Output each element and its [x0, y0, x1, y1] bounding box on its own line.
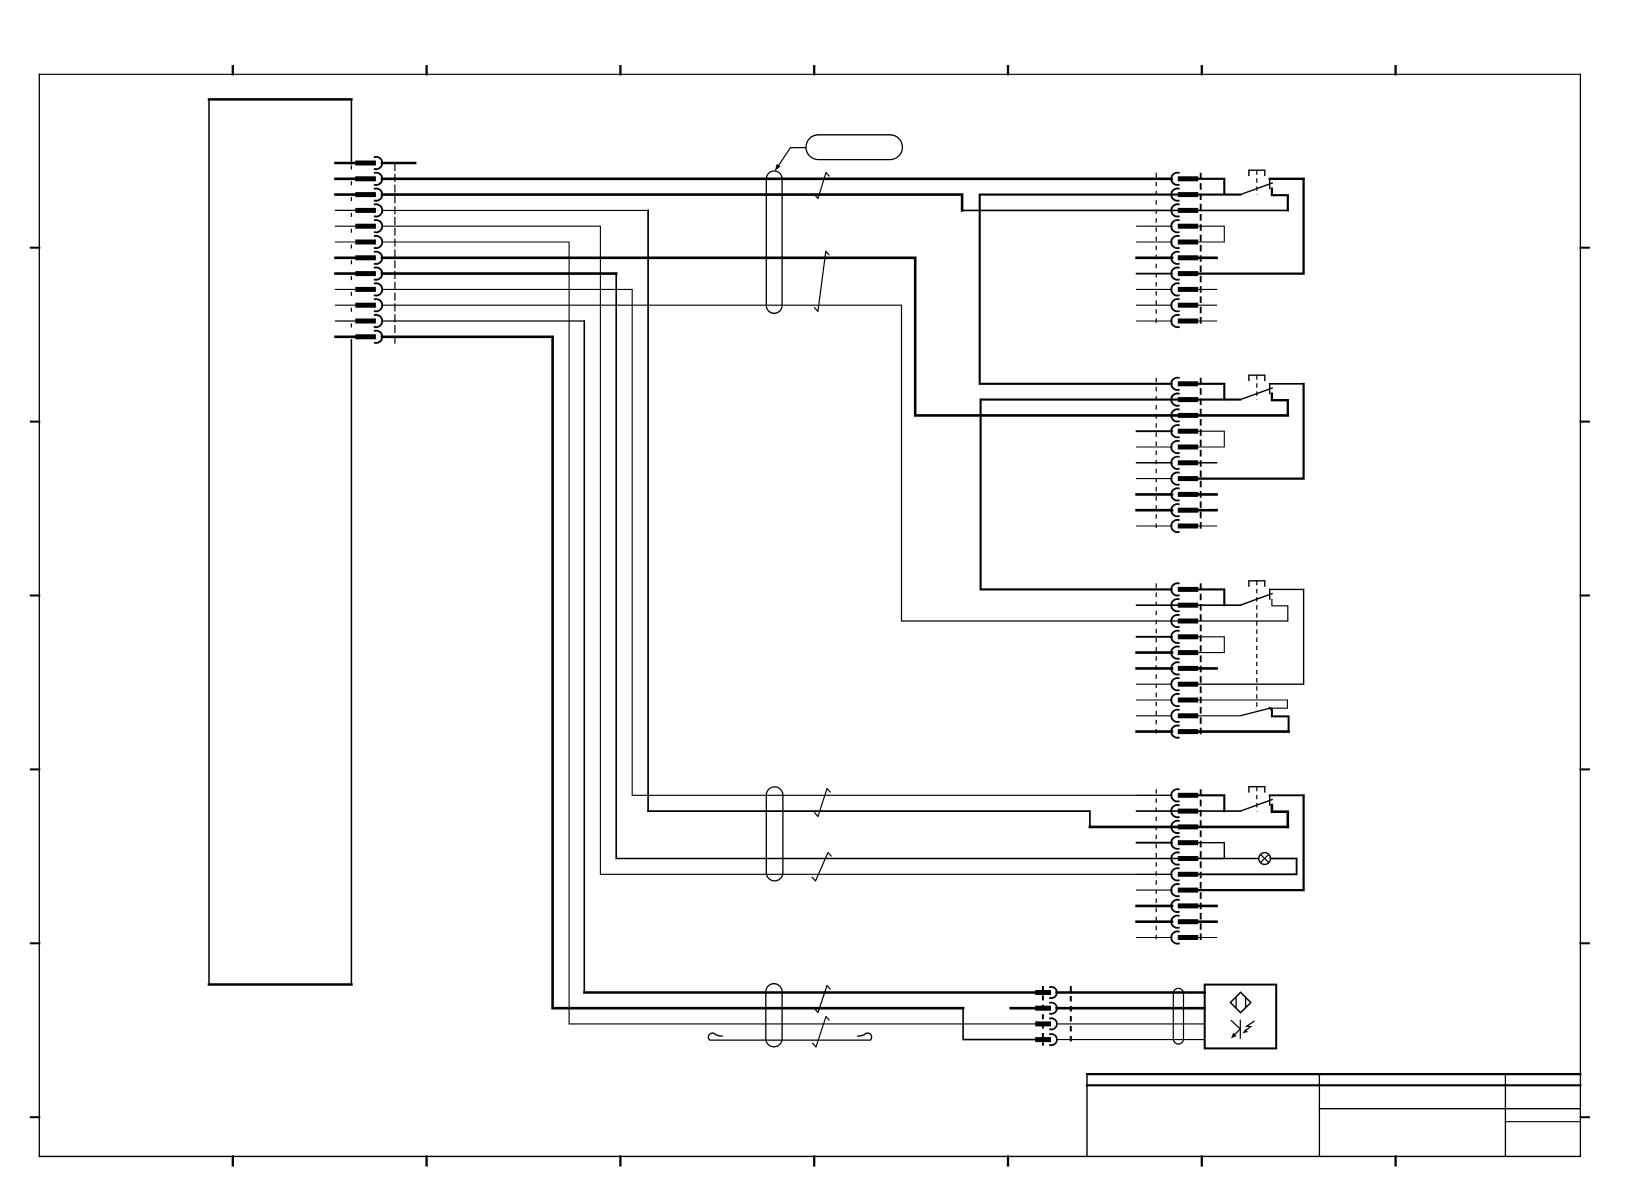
- switch S5 blade: [1240, 799, 1273, 811]
- switch S3 push actuator: [1249, 375, 1265, 380]
- connector X4 pin 10: [1137, 730, 1172, 733]
- jumper X2 pins 1-2: [1198, 179, 1224, 195]
- sensor diamond symbol: [1230, 992, 1250, 1012]
- wire X1-3 to X2-3: [382, 195, 962, 211]
- connector X2 pin 10: [1137, 320, 1172, 322]
- connector X1 pin 8: [336, 272, 356, 275]
- connector X5 pin 6: [1137, 873, 1172, 875]
- breakout mark 1: [815, 173, 830, 199]
- jumper X4 pins 4-5: [1198, 637, 1224, 653]
- connector X5 pin 1: [1137, 794, 1172, 796]
- connector X2 pin 3: [1137, 209, 1172, 211]
- connector X1 pin 12: [336, 335, 356, 338]
- wire stub X6-2: [1011, 1007, 1036, 1010]
- connector X1 pin 4: [336, 209, 356, 211]
- connector X3 pin 3: [1137, 414, 1172, 416]
- wire switch to X2 pin 3: [1272, 189, 1288, 211]
- photoelectric sensor B1: [1205, 985, 1277, 1049]
- jumper X4 pins 1-2: [1198, 589, 1224, 605]
- wire X3-2 chain to X4-1: [981, 400, 1241, 590]
- connector X3 pin 5: [1137, 446, 1172, 448]
- connector X5 pin 2: [1137, 810, 1172, 812]
- tie wrap left: [708, 1033, 723, 1040]
- connector X4 housing (dashed): [1155, 583, 1157, 737]
- connector X1 pin 6: [336, 241, 356, 243]
- wire X1-10 to X4-3: [382, 305, 1288, 621]
- breakout mark 3: [815, 789, 831, 817]
- connector X4 pin 5: [1137, 651, 1172, 654]
- breakout mark 4: [812, 853, 831, 882]
- wire switch to X4 pin 3: [1272, 599, 1288, 621]
- connector X5 housing (dashed): [1155, 789, 1157, 943]
- connector X5 pin 10: [1137, 937, 1172, 939]
- wire X2-2 chain to X3-1: [980, 195, 1241, 384]
- connector X4 pin 4: [1137, 636, 1172, 638]
- loom wrap 2: [766, 787, 783, 881]
- wire X4 pin2 stub: [1137, 604, 1241, 606]
- wire X4 pin 9 to switch S3b: [1198, 715, 1240, 717]
- wire switch to X3 pin 7: [1270, 383, 1304, 385]
- breakout mark 5: [815, 986, 831, 1013]
- connector X4 pin 2: [1137, 604, 1172, 606]
- connector X5 pin 7: [1137, 889, 1172, 891]
- connector X1 pin 2: [336, 178, 356, 181]
- connector X2 pin 9: [1137, 304, 1172, 306]
- loom wrap 3: [766, 984, 782, 1047]
- connector X5 pin 4: [1137, 842, 1172, 844]
- breakout mark 2: [815, 251, 830, 311]
- wire X5 pin2 stub: [1137, 810, 1241, 812]
- connector X3 pin 8: [1137, 493, 1172, 496]
- switch S5 push actuator: [1249, 787, 1265, 792]
- wire X1-12 to X6-4: [382, 337, 963, 1008]
- switch S2 blade: [1240, 183, 1273, 195]
- connector X3 housing (dashed): [1155, 378, 1157, 532]
- switch S3b blade: [1240, 708, 1271, 716]
- jumper X2 pins 4-5: [1198, 226, 1224, 242]
- control unit A1: [209, 98, 351, 101]
- connector X3 pin 6: [1137, 462, 1172, 464]
- connector X1 pin 9: [336, 288, 356, 290]
- connector X1 pin 10: [336, 304, 356, 306]
- jumper X3 pins 1-2: [1198, 384, 1224, 400]
- connector X2 pin 8: [1137, 288, 1172, 290]
- wire switch to X2 pin 7: [1270, 178, 1304, 180]
- connector X2 pin 5: [1137, 241, 1172, 243]
- breakout mark 6: [813, 1017, 830, 1048]
- connector X5 pin 3: [1137, 826, 1172, 828]
- wire switch to X3 pin 3: [1272, 394, 1288, 416]
- jumper X5 pins 1-2: [1198, 795, 1224, 811]
- connector X6 pin 3: [1035, 1021, 1051, 1026]
- connector X6 housing (dashed): [1042, 986, 1044, 1046]
- connector X4 pin 8: [1137, 699, 1172, 701]
- connector X1 pin 11: [336, 320, 356, 322]
- switch S2 push actuator: [1249, 170, 1265, 175]
- connector X2 housing (dashed): [1155, 173, 1157, 327]
- connector X2 pin 4: [1137, 225, 1172, 227]
- tie wrap line: [710, 1039, 870, 1041]
- callout balloon: [806, 135, 902, 160]
- connector X1 pin 1: [336, 162, 356, 165]
- connector X5 pin 8: [1137, 905, 1172, 908]
- connector X3 pin 1: [1137, 383, 1172, 385]
- tie wrap right: [857, 1033, 872, 1040]
- connector X5 pin 9: [1137, 920, 1172, 923]
- wire X4 pin 8 to switch S3b: [1198, 699, 1287, 701]
- loom wrap 1: [766, 171, 782, 313]
- indicator lamp E1: [1259, 853, 1271, 865]
- wire switch to X5 pin 7: [1270, 794, 1304, 796]
- connector X4 pin 3: [1137, 620, 1172, 622]
- connector X3 pin 4: [1137, 430, 1172, 432]
- wire X1-1 stub: [382, 162, 415, 165]
- wire X1-4 to X5-3: [382, 209, 648, 211]
- wire X1-11 to X6-1: [382, 320, 584, 322]
- wire X1-5 to X5-6: [382, 226, 1172, 874]
- connector X2 pin 2: [1137, 194, 1172, 196]
- connector X1 mating face (dashed): [350, 166, 352, 341]
- connector X3 pin 2: [1137, 399, 1172, 401]
- callout leader arrow: [777, 148, 807, 169]
- wire X1-8 to X5-5: [382, 272, 616, 275]
- wire switch to X4 pin 7: [1270, 588, 1304, 590]
- connector X6 pin 1: [1035, 990, 1051, 995]
- connector X6 pin 4: [1035, 1037, 1051, 1042]
- connector X6 pin 2: [1035, 1006, 1051, 1011]
- jumper X3 pins 4-5: [1198, 431, 1224, 447]
- connector X3 pin 9: [1137, 509, 1172, 512]
- connector X5 pin 5: [1137, 858, 1172, 860]
- connector X2 pin 1: [1137, 178, 1172, 180]
- wire X1-9 to X5-1: [382, 289, 1172, 795]
- connector X4 pin 6: [1137, 667, 1172, 670]
- switch S4 blade: [1240, 593, 1273, 605]
- jumper X5 pins 4-5: [1198, 843, 1224, 859]
- connector X1 pin 3: [336, 193, 356, 196]
- connector X4 pin 9: [1137, 715, 1172, 717]
- connector X1 pin 7: [336, 256, 356, 259]
- sensor emitter flash symbol: [1245, 1021, 1254, 1030]
- connector X4 pin 7: [1137, 683, 1172, 685]
- switch S4 push actuator: [1249, 581, 1265, 586]
- connector X3 pin 7: [1137, 478, 1172, 480]
- wire X1-2 to X2-1: [382, 178, 1172, 181]
- wire X4 pin 10 to switch S3b: [1198, 730, 1289, 733]
- connector X1 pin 5: [336, 225, 356, 227]
- wire X1-6 to X6-3: [382, 242, 1035, 1024]
- loom wrap 4: [1173, 988, 1183, 1044]
- connector X2 pin 7: [1137, 273, 1172, 275]
- connector X3 pin 10: [1137, 525, 1172, 527]
- wire lamp to pin 6: [1198, 859, 1297, 875]
- sensor receiver symbol: [1239, 1020, 1241, 1039]
- connector X4 pin 1: [1137, 588, 1172, 590]
- wire X1-7 to X3-3: [382, 258, 1288, 416]
- connector X2 pin 6: [1137, 256, 1172, 259]
- switch S3 blade: [1240, 388, 1273, 400]
- wire switch to X5 pin 3: [1272, 805, 1288, 827]
